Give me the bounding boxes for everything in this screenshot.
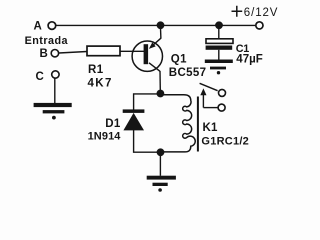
svg-text:BC557: BC557 [169,67,207,79]
label +6/12V plus sign [232,6,243,17]
wire arrow corner to NO contact [203,107,217,109]
relay core bar [197,97,199,152]
resistor R1 [87,46,120,56]
svg-text:6/12V: 6/12V [244,7,279,19]
wire R1 to Q1 base [120,50,144,52]
svg-text:Q1: Q1 [171,53,187,65]
terminal C [52,71,59,78]
svg-text:Entrada: Entrada [25,35,69,47]
diode D1 (1N914) [123,109,145,130]
wire node to D1 cathode [134,94,161,110]
capacitor C1 bottom plate [206,46,233,50]
junction node: D1 anode / coil bottom / ground [157,148,165,156]
svg-text:A: A [34,21,42,33]
terminal A [48,22,56,30]
ground at C1 [205,60,233,75]
main ground [147,176,176,192]
relay blade [200,83,218,90]
junction node: emitter / top rail [157,21,165,29]
transistor Q1 (BC557 PNP) [132,28,162,91]
ground at input C [34,103,72,120]
svg-text:K1: K1 [203,122,219,134]
junction node: C1 / top rail [215,21,223,29]
wire node to main ground [159,154,161,176]
wire C1 to ground [218,50,220,60]
svg-text:G1RC1/2: G1RC1/2 [201,135,249,147]
wire node to relay coil + coil loops K1 [160,95,195,152]
junction node: collector / D1 / coil top [157,90,165,98]
capacitor C1 wire from rail [218,25,220,39]
terminal B [51,50,58,57]
svg-text:B: B [40,48,48,60]
capacitor C1 top plate [206,39,233,44]
wire C to ground [54,79,56,104]
relay armature arrow [200,88,206,107]
relay contact lower (NO) [218,104,225,111]
wire D1 anode to lower node [134,130,157,153]
svg-text:D1: D1 [105,118,121,130]
svg-text:R1: R1 [88,64,104,76]
svg-text:C: C [36,71,44,83]
wire B to R1 [59,52,87,54]
wire A to +6/12V rail [56,24,255,26]
relay contact upper [219,89,226,96]
terminal +6/12V [256,22,263,29]
svg-text:47µF: 47µF [236,54,262,66]
svg-text:1N914: 1N914 [88,131,122,143]
svg-text:4K7: 4K7 [88,78,113,90]
